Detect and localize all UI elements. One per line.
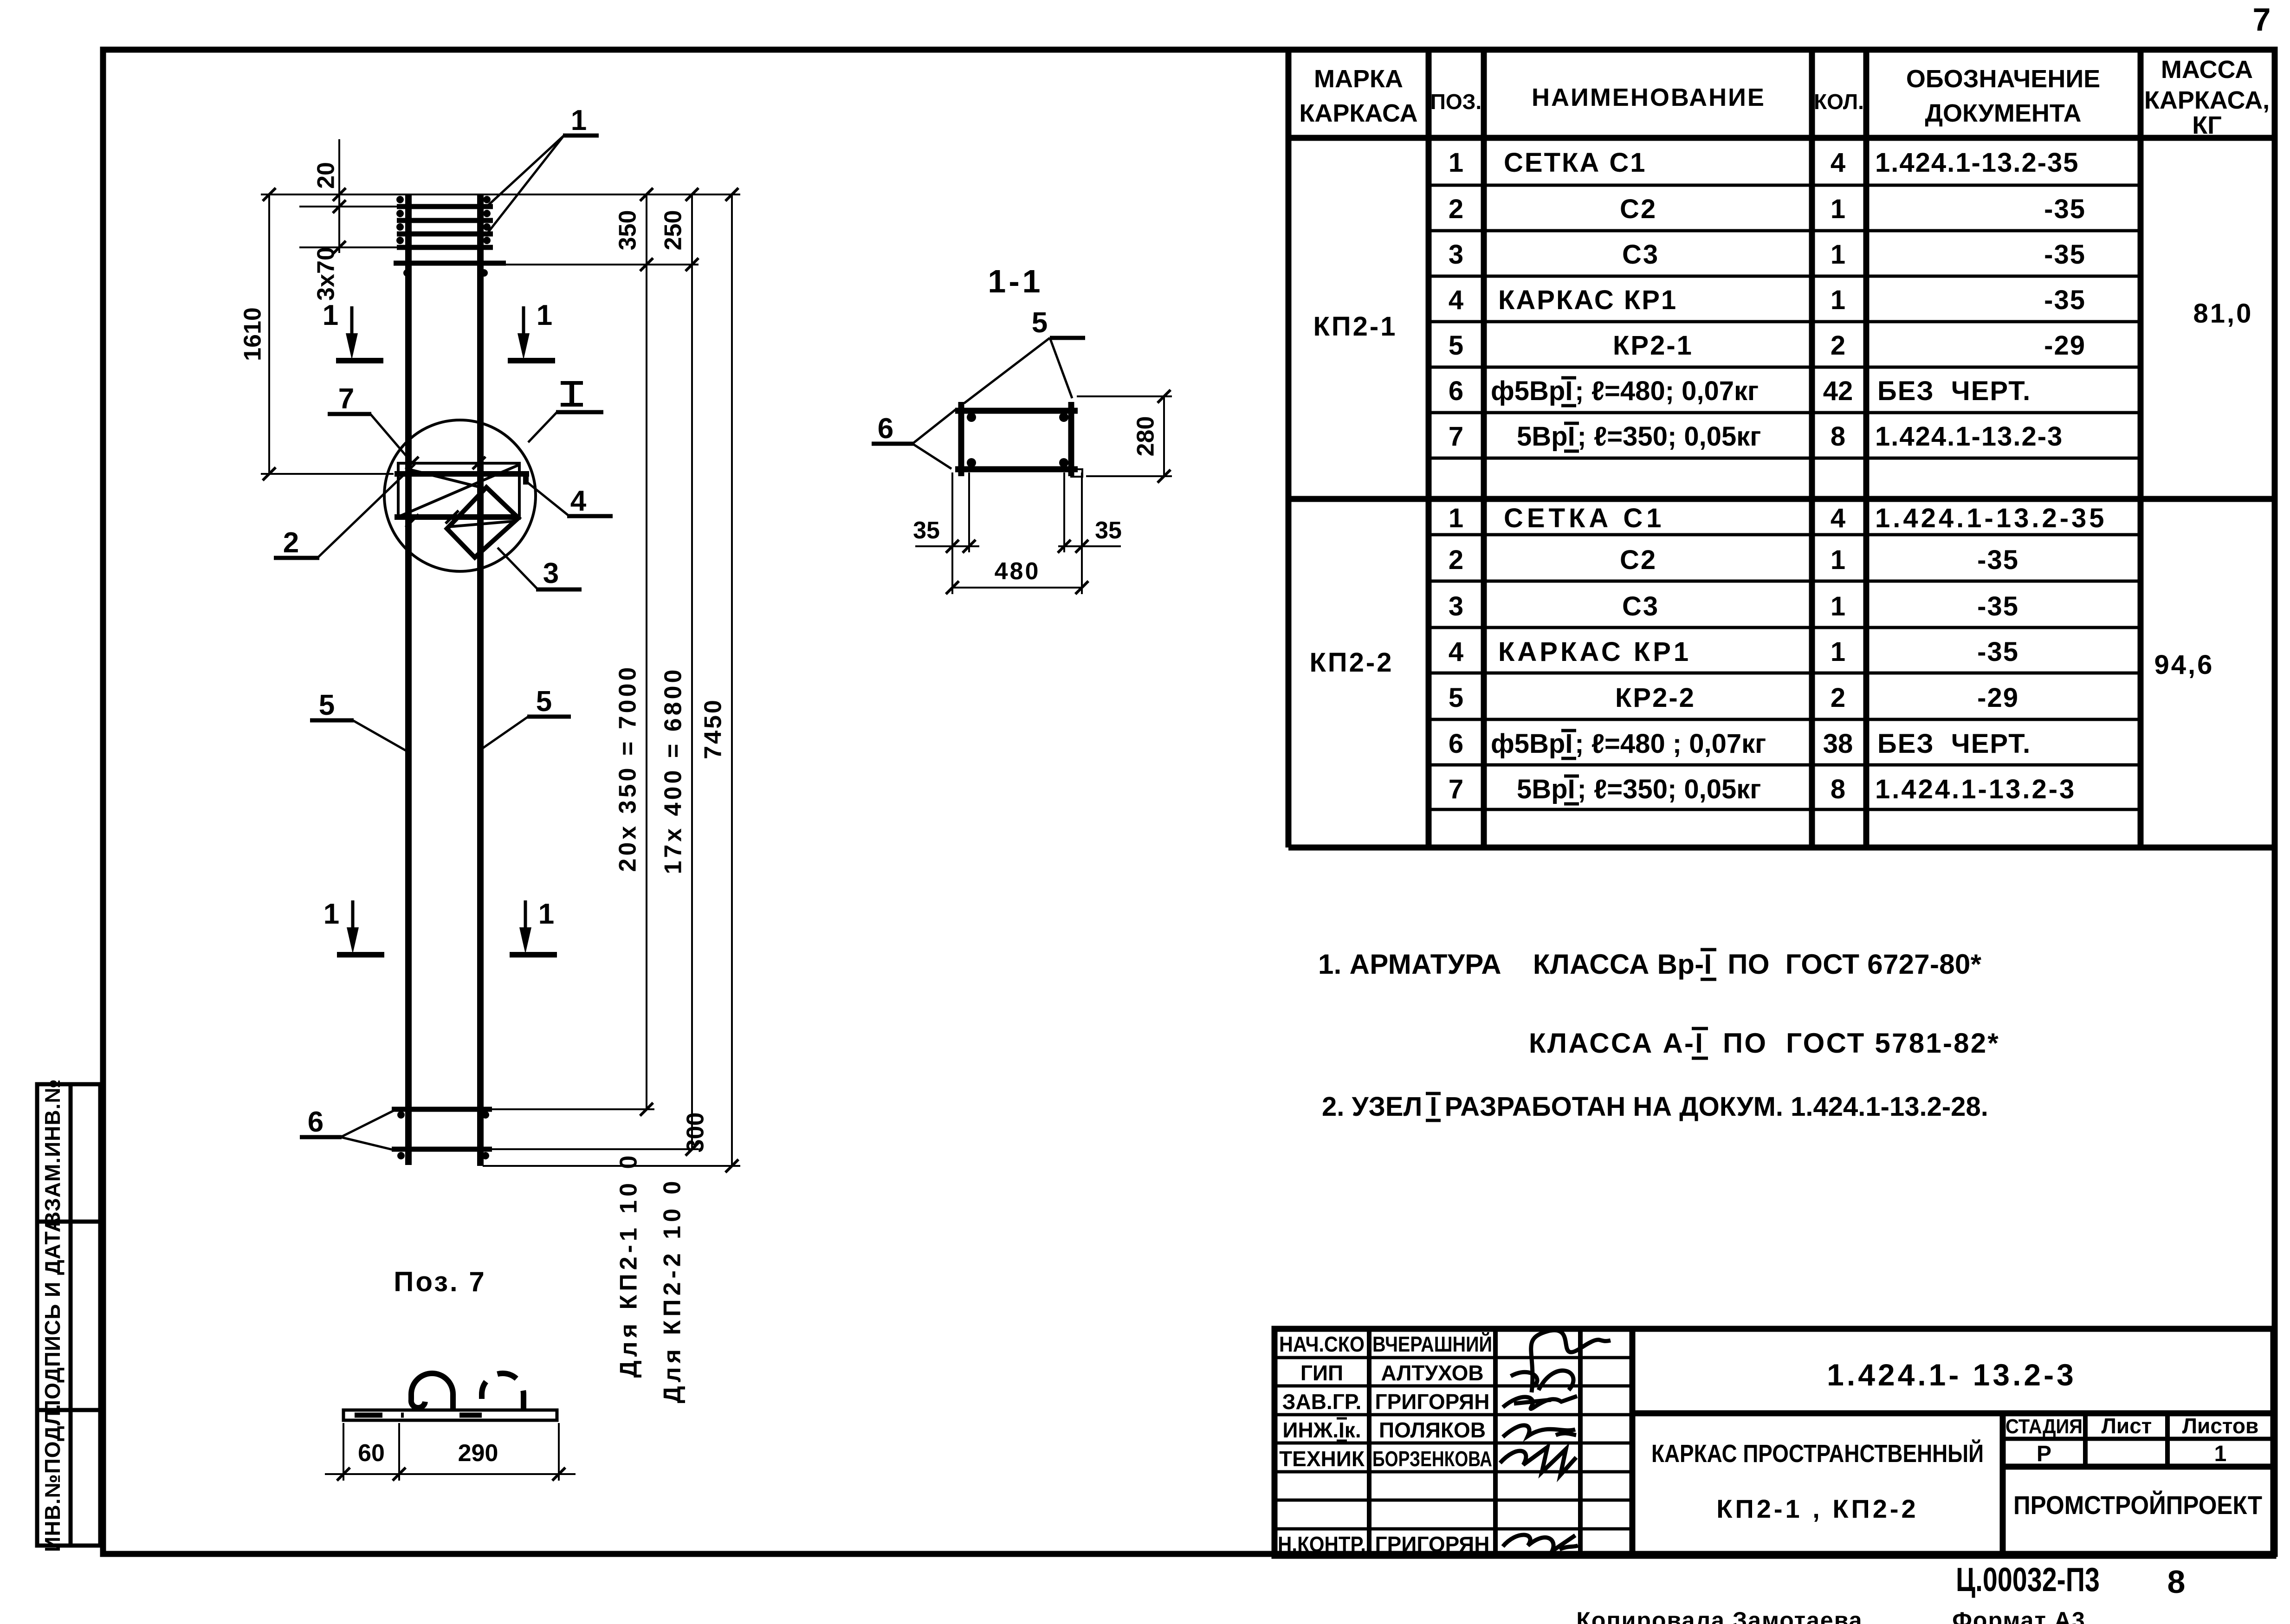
cage left longitudinal bar [405,194,412,1165]
svg-text:5: 5 [319,689,335,721]
title block outer [1274,1329,2273,1556]
svg-text:5ВрI ; ℓ=350; 0,05кг: 5ВрI ; ℓ=350; 0,05кг [1517,774,1761,804]
table outer and thick lines [1288,50,2273,848]
dots under long wire [403,269,488,277]
svg-text:35: 35 [1095,517,1122,544]
node rect outline [398,463,519,517]
leader label 4 [528,483,613,517]
svg-text:6: 6 [308,1106,323,1138]
svg-text:480: 480 [995,558,1041,585]
svg-text:1.424.1-13.2-35: 1.424.1-13.2-35 [1875,503,2107,533]
svg-text:300: 300 [682,1113,709,1153]
signature squiggle 5 [1503,1535,1578,1551]
svg-text:2: 2 [1449,194,1463,224]
top cross wire 2 [397,218,493,223]
svg-text:1: 1 [1449,503,1463,533]
svg-text:8: 8 [1831,774,1845,804]
group 1 poz numbers [1449,148,1463,452]
cage right longitudinal bar [477,194,484,1166]
svg-text:Для КП2-1 10 0: Для КП2-1 10 0 [615,1152,642,1378]
group 2 poz numbers [1449,503,1463,804]
node main diagonal [398,465,518,517]
svg-text:1: 1 [1831,637,1845,667]
svg-text:1. АРМАТУРА КЛАССА Вр-I ПО: 1. АРМАТУРА КЛАССА Вр-I ПО ГОСТ 6727-80* [1318,949,1982,980]
svg-text:КАРКАС ПРОСТРАНСТВЕННЫЙ: КАРКАС ПРОСТРАНСТВЕННЫЙ [1651,1439,1984,1468]
svg-text:С2: С2 [1620,545,1657,575]
top cross wire 3 [397,232,493,237]
signature squiggle 1 [1511,1330,1611,1392]
svg-text:КП2-1: КП2-1 [1313,311,1397,342]
svg-text:МАССА: МАССА [2161,56,2253,84]
node rect top chord thick [395,471,529,477]
leader label 2 [274,464,415,559]
bottom cross wire 1 [392,1107,492,1112]
svg-text:КГ: КГ [2192,111,2222,139]
section extension lines down [952,472,1082,594]
svg-text:Листов: Листов [2182,1414,2258,1438]
svg-text:350: 350 [615,210,641,251]
title block right horizontals [1632,1410,2273,1417]
svg-text:ГРИГОРЯН: ГРИГОРЯН [1375,1390,1490,1414]
svg-text:4: 4 [1831,148,1845,178]
svg-text:1: 1 [323,898,339,930]
right hook dashed [482,1373,524,1411]
svg-text:СЕТКА С1: СЕТКА С1 [1504,148,1647,178]
section cage top wire [955,408,1078,414]
svg-text:Копировала Замотаева: Копировала Замотаева [1576,1607,1863,1624]
svg-text:Ц.00032-П3: Ц.00032-П3 [1956,1561,2100,1598]
detail circle [384,420,536,571]
svg-text:2. УЗЕЛ I РАЗРАБОТАН НА ДОКУМ.: 2. УЗЕЛ I РАЗРАБОТАН НА ДОКУМ. 1.424.1-1… [1322,1092,1988,1122]
svg-text:5: 5 [536,686,552,718]
svg-text:2: 2 [1449,545,1463,575]
svg-text:ЗАВ.ГР.: ЗАВ.ГР. [1282,1390,1362,1414]
bottom wire dots [397,1111,489,1159]
signature squiggle 2 [1503,1396,1577,1409]
svg-text:ф5ВрI ; ℓ=480; 0,07кг: ф5ВрI ; ℓ=480; 0,07кг [1491,376,1759,406]
title block verticals [1369,1329,2167,1556]
group 2 document designations [1875,503,2107,804]
svg-text:1: 1 [1831,591,1845,621]
svg-text:1: 1 [1831,545,1845,575]
svg-text:-35: -35 [2044,285,2086,315]
node rect bottom chord thick [395,514,521,520]
svg-text:ТЕХНИК: ТЕХНИК [1279,1447,1365,1471]
svg-text:КОЛ.: КОЛ. [1814,90,1864,114]
svg-text:-35: -35 [1977,591,2019,621]
dim line 350 / 20x350 [646,194,647,1109]
svg-text:5: 5 [1032,307,1048,339]
section marker 1-1 lower right [510,898,557,955]
diamond inner wrap line [448,521,513,527]
leader label 6 section [872,408,957,469]
svg-text:-29: -29 [1977,683,2019,713]
svg-text:НАИМЕНОВАНИЕ: НАИМЕНОВАНИЕ [1532,84,1766,111]
svg-text:6: 6 [1449,729,1463,759]
svg-text:6: 6 [878,413,893,445]
table row lines group 1 [1429,185,2141,458]
svg-text:БЕЗ ЧЕРТ.: БЕЗ ЧЕРТ. [1877,729,2031,759]
svg-text:81,0: 81,0 [2193,298,2253,329]
leader label 5 section [964,307,1085,403]
ticks on right dim lines [640,188,738,1172]
svg-text:-35: -35 [1977,637,2019,667]
svg-text:МАРКА: МАРКА [1314,65,1403,93]
bar outline [343,1410,557,1420]
section marker 1-1 upper right [508,299,555,361]
svg-text:Лист: Лист [2102,1414,2152,1438]
position 7 hook bar detail [343,1373,557,1420]
leader label 6 bottom [300,1106,395,1150]
svg-text:НАЧ.СКО: НАЧ.СКО [1279,1332,1365,1356]
svg-text:290: 290 [458,1440,498,1467]
svg-text:17x 400 = 6800: 17x 400 = 6800 [660,667,687,874]
section corner bar dots [967,413,1068,467]
svg-text:-35: -35 [1977,545,2019,575]
svg-text:С2: С2 [1620,194,1657,224]
svg-text:60: 60 [358,1440,385,1467]
dim 1610 bottom extension [261,473,394,475]
dim 20 vertical line [338,139,340,253]
svg-text:8: 8 [2167,1564,2186,1600]
svg-text:КР2-2: КР2-2 [1615,683,1695,713]
wire end dots top right [483,196,491,244]
dim 1610 line [268,194,270,474]
svg-text:1: 1 [1831,239,1845,270]
signature role labels [1278,1332,1366,1556]
svg-text:35: 35 [913,517,940,544]
svg-text:4: 4 [1449,637,1463,667]
svg-text:ИНЖ.Iк.: ИНЖ.Iк. [1282,1418,1361,1442]
svg-text:7: 7 [2253,1,2271,38]
svg-text:КР2-1: КР2-1 [1613,330,1693,361]
dim 1610 ticks [263,188,276,480]
roman numeral bars on I glyphs [1426,378,1716,1120]
diamond sheet [447,487,518,557]
group 1 document designations [1875,148,2086,452]
group 1 names [1491,148,1761,452]
svg-text:КП2-1 , КП2-2: КП2-1 , КП2-2 [1716,1494,1918,1523]
section cage left bar [958,402,964,476]
svg-text:Поз. 7: Поз. 7 [394,1266,486,1297]
svg-text:1.424.1-13.2-3: 1.424.1-13.2-3 [1875,774,2076,804]
svg-text:42: 42 [1823,376,1853,406]
ticks on 20 dim [333,188,346,254]
leader label 7 [328,383,412,462]
svg-text:ПОЗ.: ПОЗ. [1430,90,1481,114]
svg-text:ОБОЗНАЧЕНИЕ: ОБОЗНАЧЕНИЕ [1906,65,2100,93]
svg-text:7: 7 [338,383,354,415]
svg-text:1: 1 [323,299,338,331]
svg-text:1: 1 [571,104,587,136]
svg-text:Р: Р [2037,1442,2051,1466]
bottom wire extensions [483,1109,740,1166]
svg-text:ПРОМСТРОЙПРОЕКТ: ПРОМСТРОЙПРОЕКТ [2013,1490,2262,1520]
dim 280 [1077,390,1172,483]
leader label 3 [498,548,582,589]
svg-text:ф5ВрI ; ℓ=480 ; 0,07кг: ф5ВрI ; ℓ=480 ; 0,07кг [1491,729,1766,759]
svg-text:3x70: 3x70 [313,247,340,301]
svg-text:20: 20 [313,162,340,189]
bar dashed core [355,1413,404,1418]
svg-text:250: 250 [660,210,687,251]
svg-text:-29: -29 [2044,330,2086,361]
svg-text:6: 6 [1449,376,1463,406]
svg-text:1: 1 [537,299,552,331]
svg-text:С3: С3 [1622,239,1659,270]
long wire thin extension to dim lines [506,264,699,265]
svg-text:СТАДИЯ: СТАДИЯ [2005,1415,2083,1438]
node intersection ticks [406,457,485,527]
group 1 qty [1823,148,1853,452]
svg-text:АЛТУХОВ: АЛТУХОВ [1381,1361,1483,1385]
svg-text:3: 3 [1449,591,1463,621]
signature names [1372,1332,1492,1556]
top extension line across bar tops [261,194,740,195]
table row lines group 2 [1429,535,2141,809]
signature squiggle 3 [1503,1425,1576,1437]
svg-text:1: 1 [1449,148,1463,178]
svg-text:ГИП: ГИП [1300,1361,1343,1385]
svg-text:КАРКАС КР1: КАРКАС КР1 [1498,285,1677,315]
section small step bottom right [1071,469,1082,477]
svg-text:3: 3 [1449,239,1463,270]
svg-text:1: 1 [1831,285,1845,315]
group 2 qty [1823,503,1853,804]
dim 35 right [1058,517,1122,553]
svg-text:КАРКАСА: КАРКАСА [1299,99,1417,127]
svg-text:Для КП2-2 10 0: Для КП2-2 10 0 [659,1178,686,1404]
svg-text:БОРЗЕНКОВА: БОРЗЕНКОВА [1372,1447,1492,1471]
svg-text:1: 1 [2214,1442,2227,1466]
dim line 7450 [731,194,733,1166]
section cage right bar [1068,402,1074,476]
extension line for 3x70 bottom [299,246,397,248]
node designation I label [528,383,603,442]
top cross wire 4 [397,245,493,250]
svg-text:КЛАССА А-I ПО ГОСТ 5781-82*: КЛАССА А-I ПО ГОСТ 5781-82* [1529,1028,2000,1059]
svg-text:2: 2 [1831,330,1845,361]
svg-text:20x 350 = 7000: 20x 350 = 7000 [615,665,641,872]
title block signature rows [1274,1358,1632,1529]
svg-text:Формат А3: Формат А3 [1952,1607,2086,1624]
svg-text:ПОДПИСЬ И ДАТА: ПОДПИСЬ И ДАТА [40,1216,65,1415]
leader label 5 left [310,689,407,751]
svg-text:38: 38 [1823,729,1853,759]
leader label 5 right [483,686,571,748]
svg-text:ВЗАМ.ИНВ.№: ВЗАМ.ИНВ.№ [40,1079,65,1227]
attach bar for leader 4 [523,472,529,485]
svg-text:КАРКАСА,: КАРКАСА, [2144,86,2270,114]
svg-text:1: 1 [538,898,554,930]
svg-text:КАРКАС КР1: КАРКАС КР1 [1498,637,1691,667]
section cage bottom wire [955,466,1078,472]
svg-text:5: 5 [1449,330,1463,361]
svg-text:7: 7 [1449,774,1463,804]
svg-text:1: 1 [1831,194,1845,224]
node wrap diagonal to diamond top [407,469,486,489]
svg-text:7: 7 [1449,421,1463,452]
dim 480 [946,558,1088,594]
svg-text:КП2-2: КП2-2 [1310,647,1394,678]
svg-text:-35: -35 [2044,239,2086,270]
top cross wire 1 [397,204,493,209]
svg-text:280: 280 [1132,416,1159,457]
svg-text:БЕЗ ЧЕРТ.: БЕЗ ЧЕРТ. [1877,376,2031,406]
svg-text:Н.КОНТР.: Н.КОНТР. [1278,1532,1366,1556]
table header texts [1299,56,2270,139]
dim 35 left [913,517,979,553]
svg-text:2: 2 [1831,683,1845,713]
extension line for 3x70 top [299,206,397,207]
svg-text:7450: 7450 [700,698,727,759]
svg-text:4: 4 [1831,503,1845,533]
wire end dots top left [396,196,404,244]
svg-text:СЕТКА С1: СЕТКА С1 [1504,503,1665,533]
svg-text:1.424.1-13.2-3: 1.424.1-13.2-3 [1875,421,2063,452]
long cross wire [394,261,506,266]
left hook solid [411,1373,453,1411]
svg-text:1.424.1-13.2-35: 1.424.1-13.2-35 [1875,148,2079,178]
svg-text:ИНВ.№ПОДЛ.: ИНВ.№ПОДЛ. [40,1404,65,1552]
bars on I of ИНЖ.Iк. [1337,1418,1347,1441]
svg-text:С3: С3 [1622,591,1659,621]
svg-text:ГРИГОРЯН: ГРИГОРЯН [1375,1532,1490,1556]
svg-text:ДОКУМЕНТА: ДОКУМЕНТА [1925,99,2082,127]
svg-text:1-1: 1-1 [988,263,1043,299]
section marker 1-1 upper left [323,299,383,361]
svg-text:8: 8 [1831,421,1845,452]
svg-text:-35: -35 [2044,194,2086,224]
signature squiggle 4 [1500,1447,1576,1475]
svg-text:1.424.1- 13.2-3: 1.424.1- 13.2-3 [1827,1358,2077,1392]
leader label 1 top [488,104,599,232]
section marker 1-1 lower left [323,898,384,955]
svg-text:4: 4 [570,485,587,517]
svg-text:4: 4 [1449,285,1463,315]
left margin stamp boxes [37,1084,100,1546]
svg-text:3: 3 [543,557,559,589]
bottom cross wire 2 [392,1147,492,1152]
svg-text:2: 2 [283,527,299,559]
svg-text:5ВрI ; ℓ=350; 0,05кг: 5ВрI ; ℓ=350; 0,05кг [1517,421,1761,452]
svg-text:ВЧЕРАШНИЙ: ВЧЕРАШНИЙ [1372,1332,1492,1356]
svg-text:94,6: 94,6 [2154,650,2214,680]
svg-text:1610: 1610 [239,307,266,361]
group 2 names [1491,503,1766,804]
hook detail dims 60 / 290 [325,1423,576,1481]
dim line 250 / 17x400 [691,194,693,1149]
svg-text:5: 5 [1449,683,1463,713]
svg-text:ПОЛЯКОВ: ПОЛЯКОВ [1379,1418,1486,1442]
